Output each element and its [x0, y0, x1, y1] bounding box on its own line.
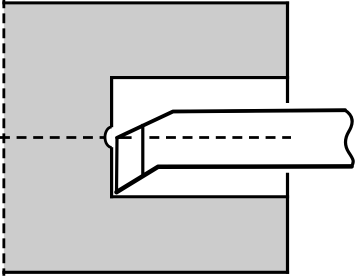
recess left wall, upper segment — [110, 76, 113, 127]
nub arc — [105, 127, 112, 147]
tool face edge (internal vertical line) — [141, 124, 144, 175]
tool bottom edge (heel line) — [117, 166, 352, 192]
tool top edge (rake face line) — [117, 110, 345, 138]
centerline (workpiece axis, left part) — [0, 136, 105, 139]
workpiece right face, lower segment — [286, 173, 289, 274]
workpiece top edge — [2, 1, 289, 4]
workpiece gray section (with recess notch) — [4, 3, 288, 272]
recess bottom edge — [110, 195, 289, 198]
centerline short dash at tool tip — [119, 136, 132, 139]
centerline (axis over the tool shank) — [149, 136, 291, 139]
dashed left edge (symmetry/break line) — [2, 0, 5, 276]
recess left wall, lower segment — [110, 147, 113, 198]
workpiece right face, upper segment — [286, 1, 289, 103]
nub arc pocket white fill — [105, 127, 112, 147]
boring tool body — [117, 110, 354, 192]
recess top edge — [110, 76, 289, 79]
workpiece bottom edge — [2, 271, 289, 274]
